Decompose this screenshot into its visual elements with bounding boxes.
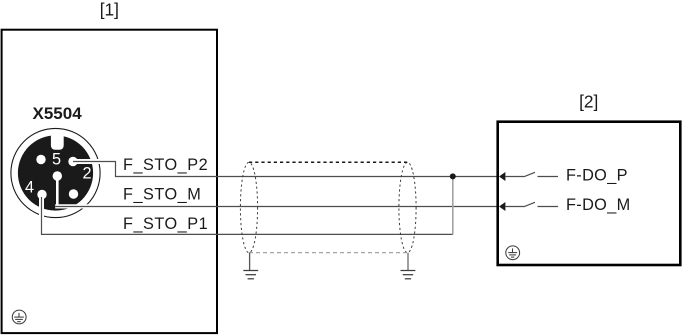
cable shield top dashed line (249, 161, 408, 163)
connector black face (18, 135, 93, 210)
svg-text:F_STO_P1: F_STO_P1 (123, 215, 208, 233)
ground symbol right (401, 271, 416, 279)
cable shield left ellipse (240, 162, 257, 252)
wire F_STO_P1 (pin 4 down and right) (42, 197, 453, 234)
wire F_STO_P2 (pin 2 to box 2) (73, 162, 497, 177)
svg-text:4: 4 (25, 179, 34, 197)
wire halo pin 5 (56, 176, 59, 205)
wire F_STO_M (pin 5 to box 2) (55, 206, 496, 208)
svg-text:X5504: X5504 (33, 104, 83, 123)
wire halo pin 2 (73, 159, 102, 164)
junction node (450, 173, 456, 179)
cable shield bottom dashed line (249, 252, 408, 254)
svg-text:F_STO_M: F_STO_M (123, 185, 201, 203)
svg-text:2: 2 (82, 165, 91, 183)
pin 1 (top-left) (36, 155, 45, 164)
switch F-DO_M (505, 202, 558, 206)
wire halo pin 4 (39, 197, 44, 218)
svg-text:F_STO_P2: F_STO_P2 (123, 156, 208, 174)
svg-text:[2]: [2] (579, 92, 598, 112)
protective earth symbol box 1 (12, 310, 26, 324)
arrow input F-DO_M (499, 202, 505, 211)
switch F-DO_P (505, 172, 558, 176)
shield ground stem right (407, 253, 409, 271)
box [2] (safety output device) (498, 122, 681, 265)
keying notch (51, 133, 64, 150)
pin 4 (bottom-left) (37, 190, 46, 199)
pin 3 (bottom-right) (69, 189, 78, 198)
svg-text:[1]: [1] (100, 0, 119, 20)
ground symbol left (243, 271, 258, 279)
svg-text:F-DO_P: F-DO_P (566, 167, 628, 185)
wire branch up to junction (452, 177, 454, 235)
pin 5 (center) (53, 171, 62, 180)
svg-text:F-DO_M: F-DO_M (566, 196, 631, 214)
box [1] (drive device) (2, 30, 217, 333)
cable shield right ellipse (399, 162, 416, 252)
protective earth symbol box 2 (506, 246, 520, 260)
pin 2 (top-right) (68, 157, 77, 166)
connector X5504 outer circle (11, 128, 100, 217)
svg-text:5: 5 (52, 151, 61, 169)
arrow input F-DO_P (499, 172, 505, 181)
shield ground stem left (249, 253, 251, 271)
